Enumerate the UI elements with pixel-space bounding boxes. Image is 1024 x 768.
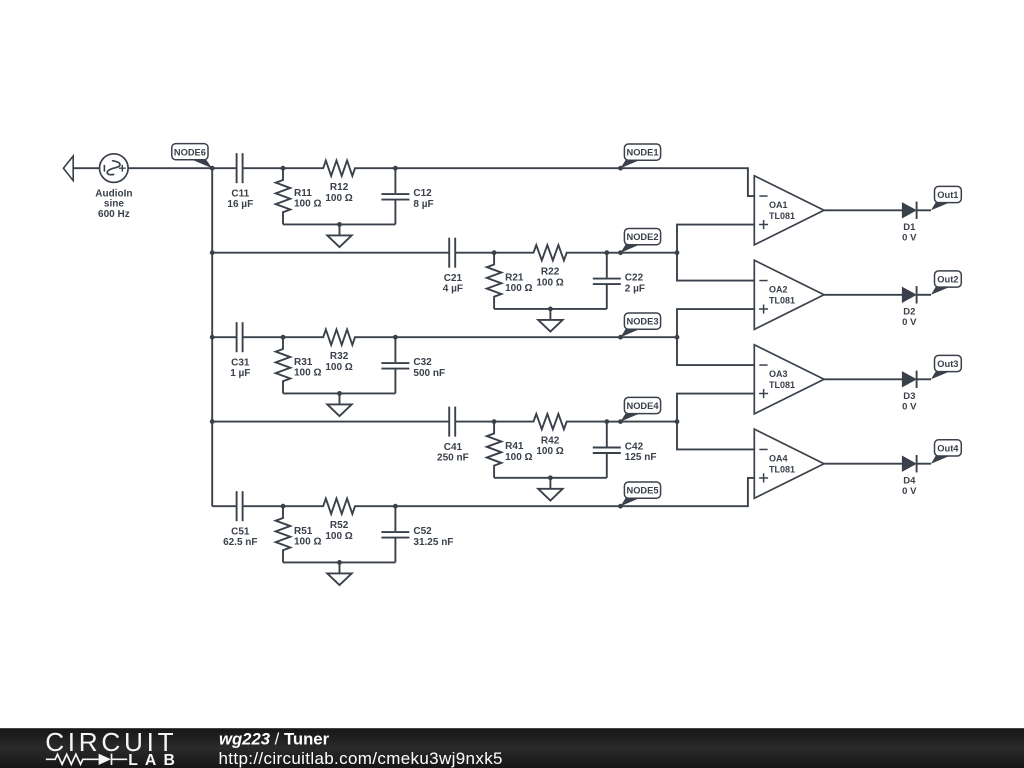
wire bus to C51 bbox=[212, 505, 236, 507]
svg-text:wg223 / Tuner: wg223 / Tuner bbox=[219, 730, 330, 749]
junction NODE1 bbox=[618, 166, 623, 171]
capacitor C51 62.5 nF (series) bbox=[223, 491, 257, 548]
svg-text:R41: R41 bbox=[505, 441, 524, 452]
svg-text:Out3: Out3 bbox=[937, 359, 958, 369]
op-amp OA4 TL081 bbox=[754, 429, 824, 498]
svg-text:125 nF: 125 nF bbox=[625, 452, 657, 463]
svg-text:sine: sine bbox=[104, 199, 124, 210]
wire NODE3 to OA3 inverting input bbox=[677, 337, 754, 365]
junction NODE3 vertical bus bbox=[675, 335, 680, 340]
svg-text:16 µF: 16 µF bbox=[227, 199, 253, 210]
resistor R41 100 Ω (shunt) bbox=[487, 422, 533, 478]
ground stage 1 bbox=[327, 224, 351, 247]
capacitor C11 16 µF (series) bbox=[227, 153, 253, 210]
svg-text:R42: R42 bbox=[541, 435, 560, 446]
junction C32 top bbox=[393, 335, 398, 340]
node Out3 callout bbox=[931, 355, 961, 379]
svg-text:Out1: Out1 bbox=[937, 190, 958, 200]
capacitor C42 125 nF (shunt) bbox=[593, 422, 657, 478]
resistor R31 100 Ω (shunt) bbox=[276, 337, 322, 393]
capacitor C32 500 nF (shunt) bbox=[381, 337, 445, 393]
wire C32 to NODE3 bbox=[395, 336, 620, 338]
svg-text:AudioIn: AudioIn bbox=[95, 188, 132, 199]
junction NODE4 vertical bus bbox=[675, 419, 680, 424]
ground stage 3 bbox=[327, 393, 351, 416]
svg-text:NODE4: NODE4 bbox=[626, 401, 659, 411]
wire bus to C21 bbox=[212, 252, 449, 254]
junction bus to stage 3 bbox=[210, 335, 215, 340]
resistor R12 100 Ω (series) bbox=[283, 161, 395, 204]
wire rail R41 to C42 bbox=[494, 477, 607, 479]
svg-text:C52: C52 bbox=[413, 526, 432, 537]
junction R21 top bbox=[492, 250, 497, 255]
wire D1 to Out1 bbox=[917, 209, 931, 211]
svg-text:http://circuitlab.com/cmeku3wj: http://circuitlab.com/cmeku3wj9nxk5 bbox=[219, 749, 503, 768]
svg-text:100 Ω: 100 Ω bbox=[325, 531, 352, 542]
wire port to source bbox=[73, 167, 99, 169]
node NODE3 callout bbox=[621, 313, 661, 337]
CircuitLab logo bbox=[45, 727, 182, 768]
wire D3 to Out3 bbox=[917, 378, 931, 380]
svg-text:R11: R11 bbox=[294, 188, 312, 199]
junction ground stage 3 bbox=[337, 391, 342, 396]
capacitor C12 8 µF (shunt) bbox=[381, 168, 433, 224]
wire C31 to R31 bbox=[243, 336, 283, 338]
wire OA2 output to D2 bbox=[824, 294, 902, 296]
capacitor C41 250 nF (series) bbox=[437, 407, 469, 464]
svg-text:8 µF: 8 µF bbox=[413, 199, 433, 210]
junction NODE3 bbox=[618, 335, 623, 340]
wire NODE5 to OA4 non-inverting input bbox=[621, 478, 755, 506]
wire C21 to R21 bbox=[455, 252, 494, 254]
svg-text:LAB: LAB bbox=[128, 752, 182, 768]
svg-text:R52: R52 bbox=[330, 520, 349, 531]
svg-text:NODE2: NODE2 bbox=[626, 232, 658, 242]
svg-text:100 Ω: 100 Ω bbox=[294, 199, 321, 210]
capacitor C52 31.25 nF (shunt) bbox=[381, 506, 453, 562]
junction R41 top bbox=[492, 419, 497, 424]
svg-text:R21: R21 bbox=[505, 272, 524, 283]
wire NODE3 to OA2 non-inverting input bbox=[621, 309, 755, 337]
resistor R11 100 Ω (shunt) bbox=[276, 168, 322, 224]
wire rail R21 to C22 bbox=[494, 308, 607, 310]
junction NODE2 bbox=[618, 250, 623, 255]
op-amp OA2 TL081 bbox=[754, 260, 824, 329]
wire C42 to NODE4 bbox=[607, 421, 621, 423]
node NODE2 callout bbox=[621, 229, 661, 253]
ground stage 2 bbox=[538, 309, 562, 332]
svg-text:250 nF: 250 nF bbox=[437, 452, 469, 463]
svg-text:0 V: 0 V bbox=[902, 317, 917, 328]
diode D4 0 V bbox=[902, 455, 917, 497]
diode D2 0 V bbox=[902, 286, 917, 328]
wire source to NODE6 bbox=[128, 167, 212, 169]
junction R31 top bbox=[281, 335, 286, 340]
resistor R42 100 Ω (series) bbox=[494, 414, 607, 457]
svg-text:NODE3: NODE3 bbox=[626, 317, 658, 327]
svg-text:R51: R51 bbox=[294, 526, 313, 537]
ground stage 5 bbox=[327, 562, 351, 585]
wire bus to C31 bbox=[212, 336, 236, 338]
svg-text:600 Hz: 600 Hz bbox=[98, 209, 130, 220]
wire OA4 output to D4 bbox=[824, 463, 902, 465]
wire C41 to R41 bbox=[455, 421, 494, 423]
schematic title wg223 / Tuner bbox=[219, 730, 330, 749]
svg-text:1 µF: 1 µF bbox=[230, 368, 250, 379]
svg-text:OA4: OA4 bbox=[769, 454, 788, 464]
svg-text:0 V: 0 V bbox=[902, 401, 917, 412]
wire NODE2 to OA1 non-inverting input bbox=[621, 225, 755, 253]
svg-text:C51: C51 bbox=[231, 527, 250, 538]
junction NODE2 vertical bus bbox=[675, 250, 680, 255]
svg-text:100 Ω: 100 Ω bbox=[505, 283, 532, 294]
svg-text:OA1: OA1 bbox=[769, 200, 788, 210]
svg-text:NODE5: NODE5 bbox=[626, 486, 658, 496]
op-amp OA1 TL081 bbox=[754, 176, 824, 245]
svg-text:Out4: Out4 bbox=[937, 444, 959, 454]
wire rail R31 to C32 bbox=[283, 392, 395, 394]
junction C42 top bbox=[604, 419, 609, 424]
wire NODE4 to OA4 inverting input bbox=[677, 422, 754, 450]
diode D1 0 V bbox=[902, 202, 917, 244]
svg-text:NODE6: NODE6 bbox=[174, 147, 206, 157]
svg-text:R32: R32 bbox=[330, 351, 349, 362]
junction ground stage 5 bbox=[337, 560, 342, 565]
svg-text:C41: C41 bbox=[444, 442, 463, 453]
wire bus to C41 bbox=[212, 421, 449, 423]
svg-text:R12: R12 bbox=[330, 182, 349, 193]
wire C22 to NODE2 bbox=[607, 252, 621, 254]
op-amp OA3 TL081 bbox=[754, 345, 824, 414]
svg-text:31.25 nF: 31.25 nF bbox=[413, 537, 453, 548]
svg-text:NODE1: NODE1 bbox=[626, 148, 658, 158]
junction R51 top bbox=[281, 504, 286, 509]
junction R11 top bbox=[281, 166, 286, 171]
svg-text:62.5 nF: 62.5 nF bbox=[223, 537, 257, 548]
svg-text:500 nF: 500 nF bbox=[413, 368, 445, 379]
capacitor C31 1 µF (series) bbox=[230, 322, 250, 379]
svg-text:2 µF: 2 µF bbox=[625, 283, 645, 294]
schematic URL bbox=[219, 749, 503, 768]
svg-text:TL081: TL081 bbox=[769, 295, 795, 305]
junction NODE5 bbox=[618, 504, 623, 509]
node Out1 callout bbox=[931, 186, 961, 210]
junction ground stage 4 bbox=[548, 475, 553, 480]
svg-text:0 V: 0 V bbox=[902, 232, 917, 243]
svg-text:C22: C22 bbox=[625, 273, 644, 284]
wire NODE1 to OA1 inverting input bbox=[621, 168, 755, 196]
footer bar bbox=[0, 728, 1024, 768]
wire C11 to R11 bbox=[243, 167, 283, 169]
node Out2 callout bbox=[931, 271, 961, 295]
voltage source V1 AudioIn sine 600 Hz bbox=[95, 154, 132, 220]
wire OA1 output to D1 bbox=[824, 209, 902, 211]
node NODE1 callout bbox=[621, 144, 661, 168]
svg-text:TL081: TL081 bbox=[769, 464, 795, 474]
svg-text:OA2: OA2 bbox=[769, 285, 788, 295]
svg-text:100 Ω: 100 Ω bbox=[536, 277, 563, 288]
svg-text:100 Ω: 100 Ω bbox=[294, 368, 321, 379]
wire OA3 output to D3 bbox=[824, 378, 902, 380]
input port AudioIn terminal bbox=[63, 156, 73, 181]
svg-text:C32: C32 bbox=[413, 357, 432, 368]
junction NODE4 bbox=[618, 419, 623, 424]
svg-text:4 µF: 4 µF bbox=[443, 284, 463, 295]
junction ground stage 1 bbox=[337, 222, 342, 227]
junction ground stage 2 bbox=[548, 307, 553, 312]
svg-text:Out2: Out2 bbox=[937, 275, 958, 285]
junction bus to stage 2 bbox=[210, 250, 215, 255]
svg-text:TL081: TL081 bbox=[769, 380, 795, 390]
svg-text:100 Ω: 100 Ω bbox=[536, 446, 563, 457]
svg-text:100 Ω: 100 Ω bbox=[294, 537, 321, 548]
junction C52 top bbox=[393, 504, 398, 509]
wire C12 to NODE1 bbox=[395, 167, 620, 169]
svg-text:C21: C21 bbox=[444, 273, 463, 284]
junction bus to stage 4 bbox=[210, 419, 215, 424]
wire D2 to Out2 bbox=[917, 294, 931, 296]
diode D3 0 V bbox=[902, 371, 917, 413]
junction C12 top bbox=[393, 166, 398, 171]
wire rail R11 to C12 bbox=[283, 223, 395, 225]
svg-text:R22: R22 bbox=[541, 266, 560, 277]
svg-text:OA3: OA3 bbox=[769, 369, 788, 379]
svg-text:C31: C31 bbox=[231, 358, 250, 369]
capacitor C21 4 µF (series) bbox=[443, 238, 463, 295]
wire C52 to NODE5 bbox=[395, 505, 620, 507]
svg-text:0 V: 0 V bbox=[902, 486, 917, 497]
svg-text:100 Ω: 100 Ω bbox=[505, 452, 532, 463]
wire NODE2 to OA2 inverting input bbox=[677, 253, 754, 281]
node NODE6 callout bbox=[172, 144, 212, 169]
wire NODE6 to C11 bbox=[212, 167, 236, 169]
node Out4 callout bbox=[931, 440, 961, 464]
wire C51 to R51 bbox=[243, 505, 283, 507]
wire rail R51 to C52 bbox=[283, 561, 395, 563]
junction C22 top bbox=[604, 250, 609, 255]
node NODE5 callout bbox=[621, 482, 661, 506]
ground stage 4 bbox=[538, 478, 562, 501]
resistor R22 100 Ω (series) bbox=[494, 245, 607, 288]
svg-text:C11: C11 bbox=[231, 189, 249, 200]
wire D4 to Out4 bbox=[917, 463, 931, 465]
wire left bus NODE6 down to stage 5 bbox=[211, 168, 213, 506]
resistor R32 100 Ω (series) bbox=[283, 330, 395, 373]
svg-text:TL081: TL081 bbox=[769, 211, 795, 221]
svg-text:R31: R31 bbox=[294, 357, 313, 368]
capacitor C22 2 µF (shunt) bbox=[593, 253, 645, 309]
svg-text:100 Ω: 100 Ω bbox=[325, 193, 352, 204]
svg-text:100 Ω: 100 Ω bbox=[325, 362, 352, 373]
svg-text:C12: C12 bbox=[413, 188, 432, 199]
svg-text:C42: C42 bbox=[625, 441, 644, 452]
resistor R21 100 Ω (shunt) bbox=[487, 253, 533, 309]
resistor R52 100 Ω (series) bbox=[283, 499, 395, 542]
resistor R51 100 Ω (shunt) bbox=[276, 506, 322, 562]
node NODE4 callout bbox=[621, 397, 661, 421]
junction NODE6 bbox=[210, 166, 215, 171]
wire NODE4 to OA3 non-inverting input bbox=[621, 394, 755, 422]
